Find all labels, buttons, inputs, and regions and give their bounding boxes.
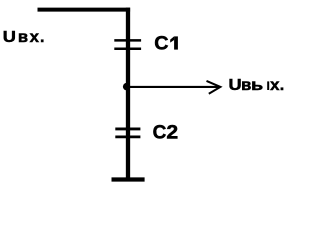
svg-text:в: в	[241, 77, 251, 94]
svg-text:C: C	[154, 33, 169, 54]
svg-text:.: .	[280, 77, 284, 94]
svg-text:в: в	[18, 29, 28, 46]
svg-text:х: х	[270, 77, 279, 94]
svg-text:U: U	[3, 29, 16, 46]
svg-text:.: .	[40, 29, 44, 46]
svg-text:2: 2	[166, 123, 178, 144]
svg-text:ь: ь	[251, 77, 263, 94]
svg-text:х: х	[30, 29, 39, 46]
svg-text:C: C	[153, 123, 167, 144]
svg-text:U: U	[229, 77, 242, 94]
